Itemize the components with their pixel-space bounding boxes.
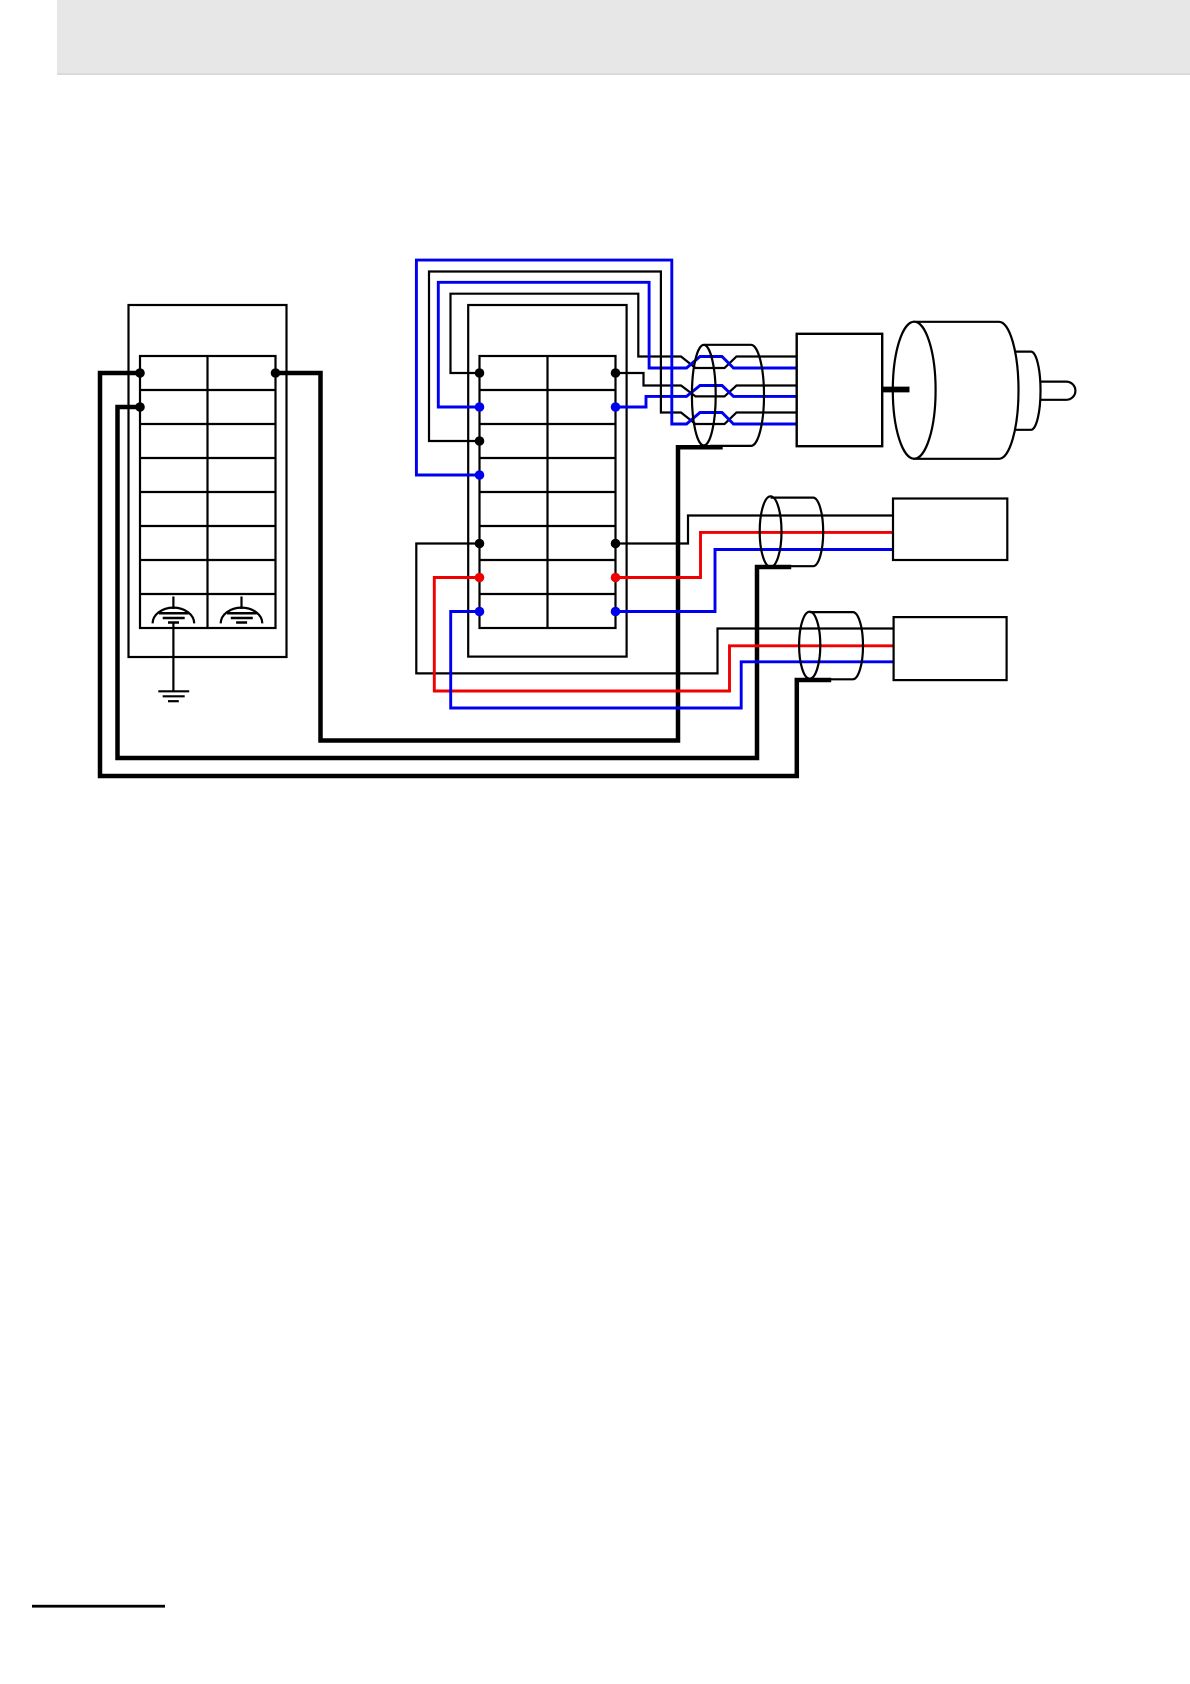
terminal block TB2 outer enclosure [468, 305, 626, 657]
shield wire cable W2 (thick) [118, 407, 792, 758]
node TB2 R7 [611, 573, 621, 583]
wire pair1 black (TB2 L1 loop) [451, 294, 797, 373]
earth terminal symbol 2 [221, 597, 263, 624]
node TB1 R1 [271, 368, 281, 378]
node TB2 L1 [475, 368, 485, 378]
motor M1 body [914, 322, 1018, 459]
wire encoder red (TB2 R7) [616, 532, 894, 577]
earth terminal symbol 1 [153, 597, 195, 624]
node TB2 R1 [611, 368, 621, 378]
shield wire cable W1 (thick) [276, 373, 723, 741]
node TB2 R8 [611, 607, 621, 617]
node TB2 L8 [475, 607, 485, 617]
terminal block TB1 outer enclosure [129, 305, 287, 657]
node TB2 L4 [475, 470, 485, 480]
node TB2 L2 [475, 402, 485, 412]
wire pair3 black (TB2 L3 loop) [429, 272, 797, 442]
node TB2 R6 [611, 539, 621, 549]
shield wire cable W3 (thick) [100, 373, 831, 776]
wire sensor blue (TB2 L8) [451, 612, 894, 709]
ground symbol [158, 691, 189, 701]
node TB2 R2 [611, 402, 621, 412]
wire pair2 black (TB2 R1) [616, 373, 797, 396]
wire sensor black (TB2 L6) [416, 544, 893, 674]
ground wire [172, 623, 174, 692]
terminal block TB1 table [140, 356, 276, 628]
cable W1 sheath cylinder [692, 345, 764, 446]
terminal block TB2 table [480, 356, 616, 628]
wire pair3 blue (TB2 L4 loop) [416, 260, 796, 475]
node TB2 L3 [475, 436, 485, 446]
wire pair2 blue (TB2 R2) [616, 386, 797, 408]
wire sensor red (TB2 L7) [434, 578, 893, 692]
cable W2 sheath cylinder [760, 496, 824, 567]
node TB2 L6 [475, 539, 485, 549]
motor M1 front face [893, 322, 936, 459]
header bar [57, 0, 1190, 75]
connector X1 [797, 334, 883, 446]
wire encoder black (TB2 R6) [616, 516, 894, 544]
motor M1 flange [1015, 352, 1041, 430]
motor M1 shaft [1040, 382, 1075, 400]
node TB1 L2 [135, 402, 145, 412]
device box U3 (sensor) [894, 617, 1007, 680]
motor shaft coupling (thick stub) [882, 387, 909, 393]
wire encoder blue (TB2 R8) [616, 550, 894, 612]
device box U2 (encoder) [893, 499, 1007, 561]
cable W3 sheath cylinder [799, 612, 863, 680]
node TB1 L1 [135, 368, 145, 378]
wire pair1 blue (TB2 L2 loop) [438, 282, 796, 407]
node TB2 L7 [475, 573, 485, 583]
footer rule [32, 1605, 165, 1608]
